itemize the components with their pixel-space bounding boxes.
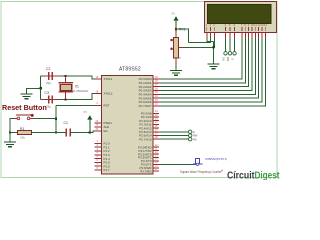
LCD module frame [205,2,277,33]
data bus wire D7 [160,38,265,106]
svg-text:AT89S52(P3.5/T1): AT89S52(P3.5/T1) [205,157,227,161]
chip left pin names [104,77,113,172]
terminal RW (below LCD) [229,38,231,52]
wire caps left vertical [40,76,42,100]
LCD pin name labels (vertical smudges) [206,27,265,31]
svg-text:X1: X1 [75,84,79,88]
junction caps/ground [40,87,42,89]
ground (under RV1) [170,71,182,76]
wire P3.5/T1 to source [160,163,197,165]
data bus wire D5 [160,38,259,98]
svg-text:P2.7/A15: P2.7/A15 [139,137,152,141]
svg-text:10k: 10k [20,136,25,140]
data bus wire D6 [160,38,262,102]
junction [212,46,214,48]
svg-text:RS: RS [221,57,225,61]
wire VEE down-left to pot wiper [183,38,214,47]
chip right pin numbers [155,76,158,171]
data bus wire D2 [160,38,249,87]
chip right pin names [138,77,152,173]
data bus wire D4 [160,38,255,94]
svg-text:C3: C3 [45,91,49,95]
wire VDD down-left to pot loop [189,38,211,43]
wire to EA pin [90,131,95,133]
potentiometer RV1 [175,29,177,38]
svg-text:RV1: RV1 [179,28,186,32]
wire chip P2.5 to terminal E [160,131,189,133]
wire pot bottom to ground [175,64,177,71]
wire loop pot wiper to top [176,29,189,43]
svg-text:P1.7: P1.7 [104,168,111,172]
terminal RS (below LCD) [225,38,227,52]
svg-text:RS: RS [193,137,197,141]
ground (mid, under LCD) [208,64,220,69]
wire chip P2.6 to terminal RW [160,135,189,137]
chip right pin stubs [153,79,160,171]
svg-text:C2: C2 [46,67,50,71]
svg-text:RST: RST [104,104,110,108]
crystal X1 [65,76,67,83]
border frame [1,2,277,178]
wire RST row [56,104,95,106]
svg-text:RW: RW [193,134,198,138]
ground (crystal) [21,94,33,99]
wire reset ground [9,133,11,142]
wire VSS to ground [207,38,214,42]
square wave source glyph [193,159,203,165]
svg-text:Círcuit: Círcuit [227,170,255,180]
LCD screen [208,5,272,24]
wire chip P2.7 to terminal RS [160,138,189,140]
push button [16,114,31,116]
svg-text:C1: C1 [64,121,68,125]
terminal RW (chip side) [189,134,192,137]
svg-text:1k: 1k [178,56,182,60]
svg-text:XTAL2: XTAL2 [104,92,113,96]
svg-text:5V: 5V [172,12,176,16]
svg-text:33p: 33p [46,105,51,109]
terminal E (below LCD) [234,38,236,52]
svg-text:Square Wave Frequency Counter: Square Wave Frequency Counter [180,170,222,174]
svg-text:Digest: Digest [255,170,280,180]
data bus wire D3 [160,38,252,91]
junction C1/+5V/EA [89,131,91,133]
ground (reset) [4,142,16,147]
terminal RS (chip side) [189,138,192,141]
svg-text:11.0592MHz: 11.0592MHz [73,89,89,93]
svg-text:E: E [230,58,234,60]
junction reset left [9,131,11,133]
chip left pin numbers [96,76,99,170]
svg-text:RW: RW [226,56,230,61]
junction XTAL2/crystal [64,98,66,100]
svg-text:P3.7/RD: P3.7/RD [140,169,152,173]
junction R1/C1 [55,131,57,133]
svg-text:33p: 33p [46,81,51,85]
wire to crystal ground [27,88,41,93]
terminal E (chip side) [189,130,192,133]
wire button left [10,118,14,132]
wire XTAL1 row [41,76,95,79]
chip body [102,76,154,175]
LCD pin stubs [207,33,265,39]
svg-text:Reset Button: Reset Button [2,103,47,112]
svg-text:XTAL1: XTAL1 [104,77,113,81]
wire stem to ground mid [213,42,215,64]
junction XTAL1/crystal [64,75,66,77]
LCD pin number labels [206,23,268,27]
svg-text:5V: 5V [84,110,88,114]
svg-text:AT89S52: AT89S52 [119,67,141,73]
svg-text:P0.7/AD7: P0.7/AD7 [139,104,152,108]
svg-text:EA: EA [104,129,108,133]
wire button right [33,117,56,119]
data bus wire D0 [160,38,242,79]
svg-text:E: E [193,130,195,134]
wire XTAL2 row [41,94,95,100]
junction pot top [175,28,177,30]
data bus wire D1 [160,38,245,83]
chip left pin stubs [95,79,102,170]
wire RST vertical [55,105,57,132]
junction button right [55,118,57,120]
